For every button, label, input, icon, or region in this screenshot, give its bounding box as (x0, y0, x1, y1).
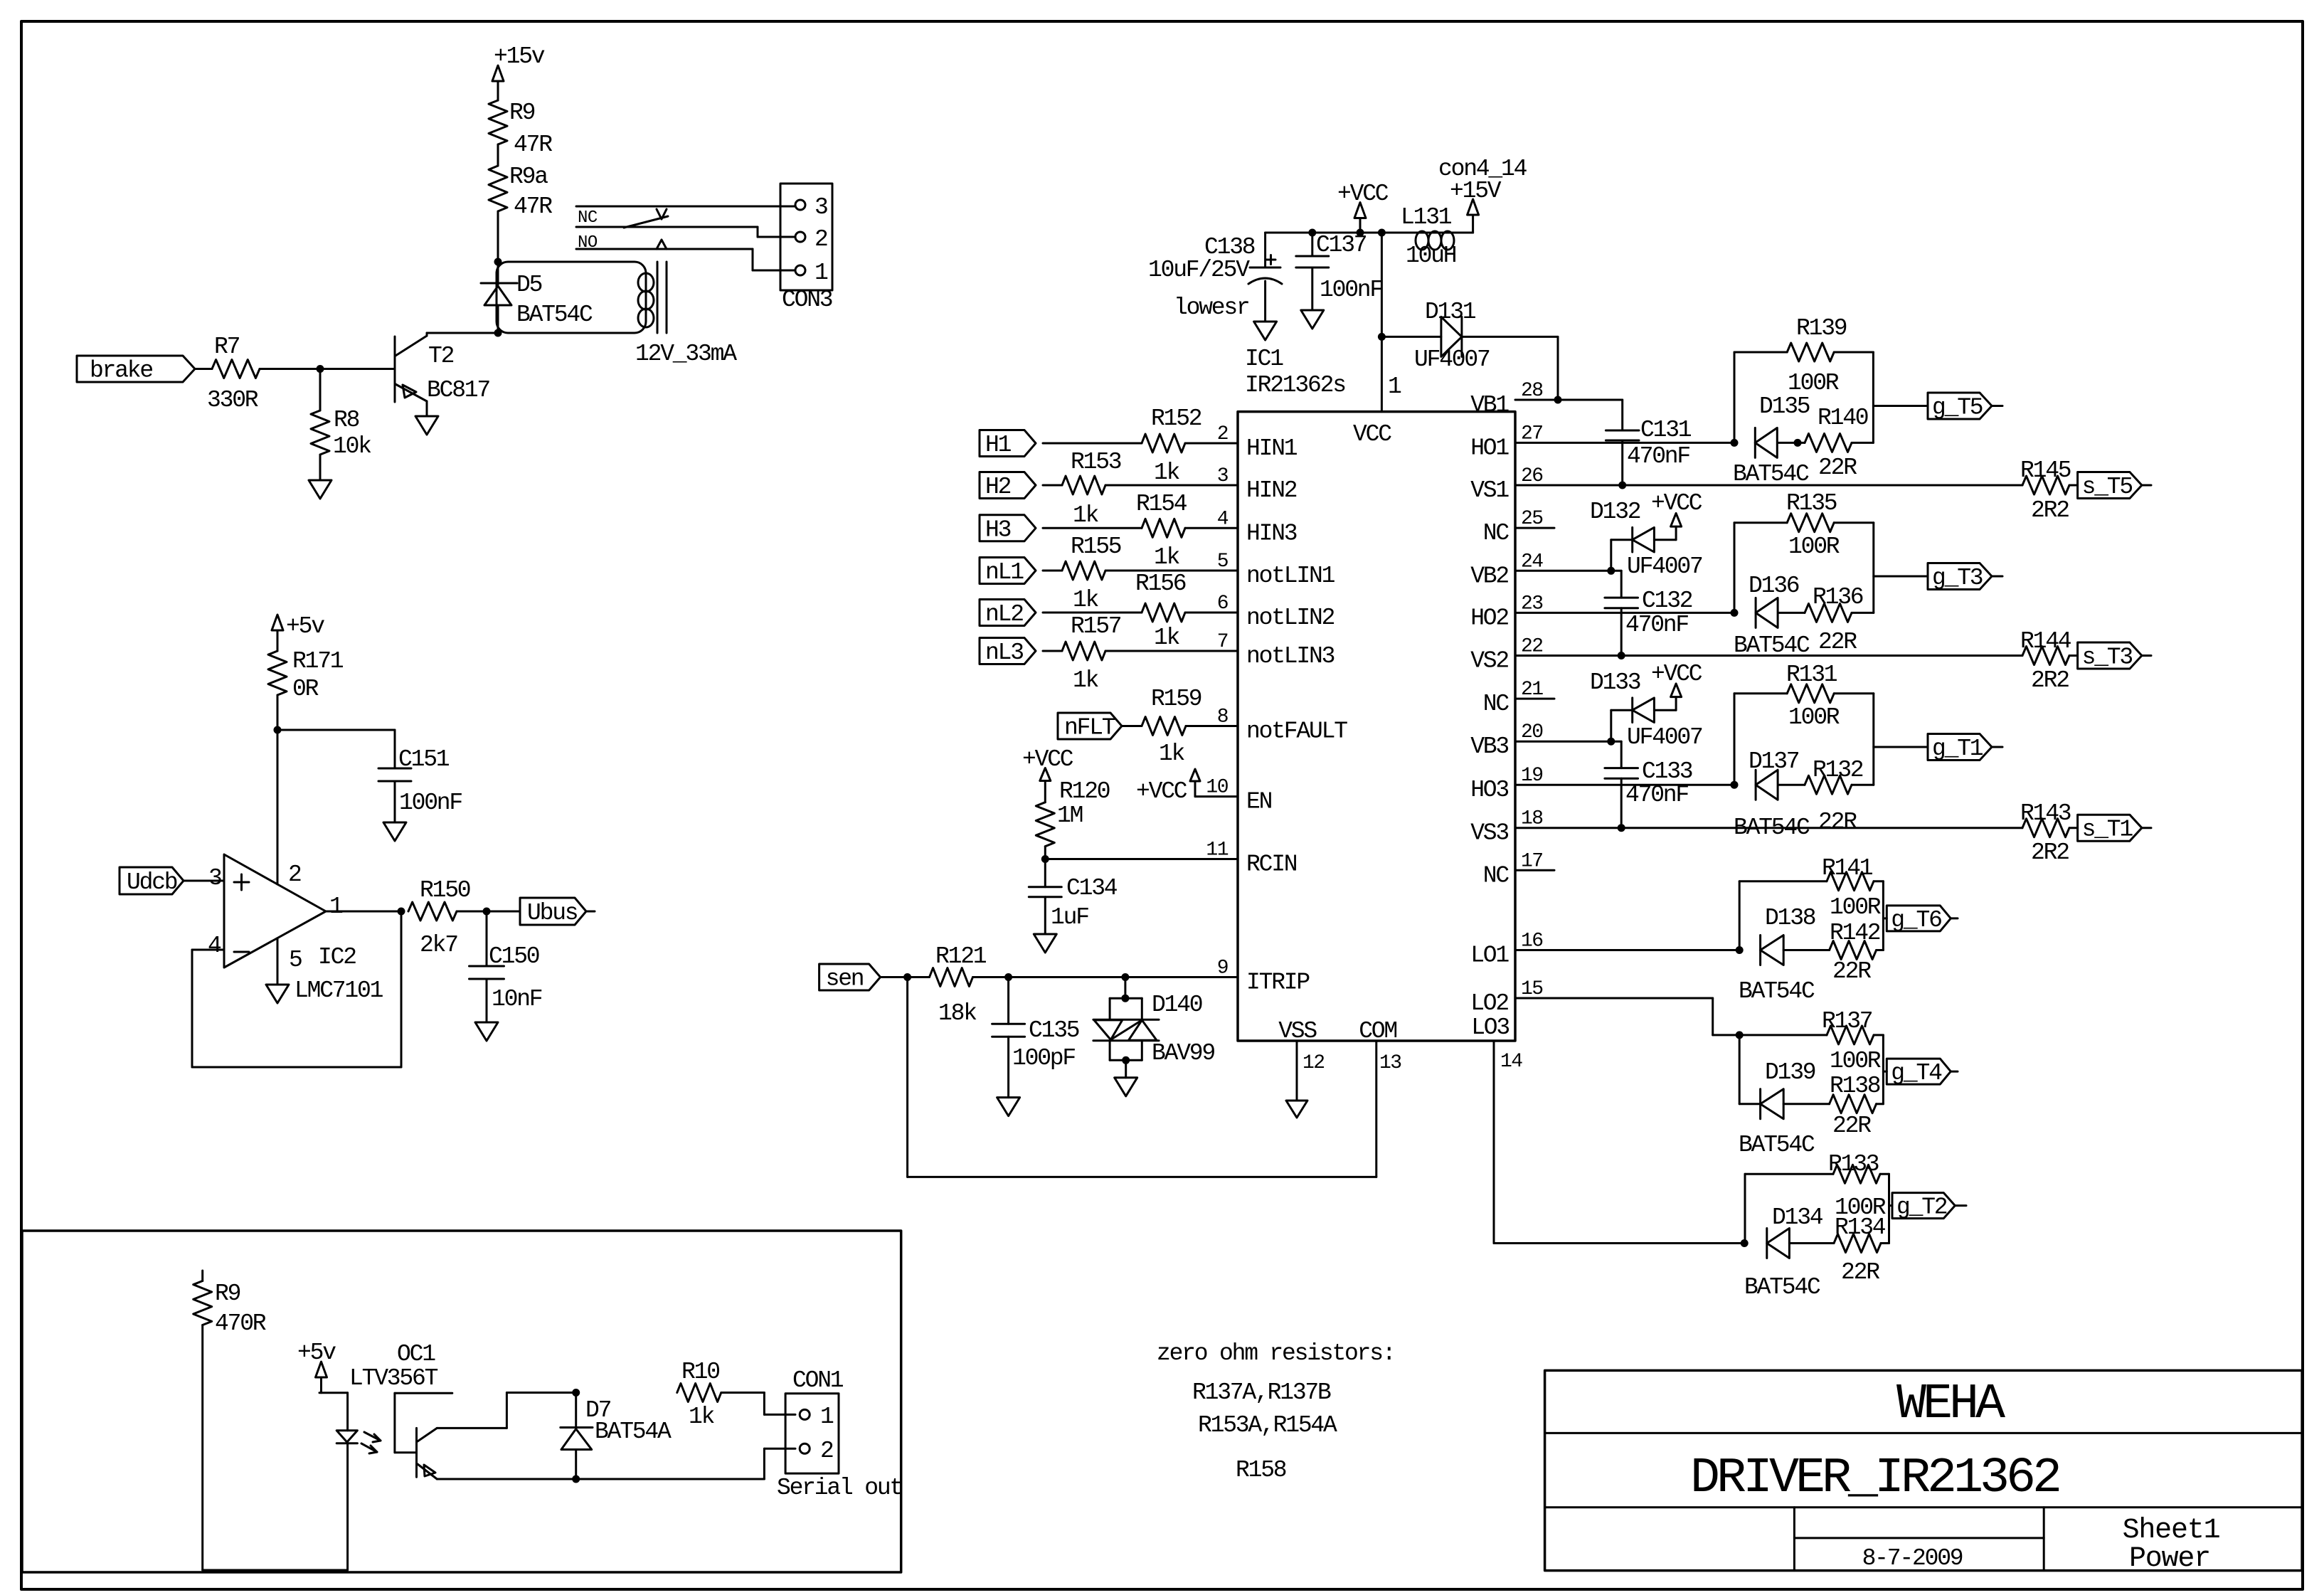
resistor R138 22R (1830, 1073, 1884, 1139)
opto LED (336, 1393, 357, 1570)
pin 15 LO2 (1470, 978, 1543, 1017)
connector CON1 (777, 1367, 902, 1501)
svg-text:R159: R159 (1151, 686, 1201, 712)
svg-text:R138: R138 (1830, 1073, 1880, 1099)
svg-text:LTV356T: LTV356T (349, 1365, 438, 1392)
inductor L131 10uH (1401, 204, 1473, 269)
svg-text:RCIN: RCIN (1246, 852, 1297, 878)
svg-text:T2: T2 (428, 343, 454, 369)
svg-text:NC: NC (1483, 691, 1509, 717)
net flag g_T5 (1873, 393, 2002, 421)
svg-text:g_T4: g_T4 (1891, 1060, 1942, 1086)
node (1308, 229, 1316, 237)
op-amp IC2 LMC7101 (224, 854, 383, 1004)
svg-text:22R: 22R (1818, 629, 1857, 655)
power +5v (serial) (297, 1340, 348, 1393)
svg-text:18k: 18k (938, 1000, 977, 1027)
svg-text:16: 16 (1521, 931, 1543, 953)
svg-text:100R: 100R (1830, 894, 1881, 921)
svg-text:8-7-2009: 8-7-2009 (1862, 1545, 1963, 1572)
svg-text:VS3: VS3 (1470, 820, 1508, 847)
svg-text:47R: 47R (514, 194, 552, 220)
pin 24 VB2 (1470, 551, 1543, 589)
svg-text:2R2: 2R2 (2031, 667, 2069, 694)
resistor R134 22R (1834, 1214, 1889, 1286)
svg-text:g_T2: g_T2 (1896, 1194, 1947, 1221)
svg-text:100R: 100R (1788, 704, 1840, 731)
svg-text:22R: 22R (1832, 958, 1871, 985)
svg-text:VB3: VB3 (1470, 733, 1508, 760)
svg-text:R134: R134 (1835, 1214, 1886, 1241)
power +VCC at R120 (1022, 746, 1073, 802)
capacitor C132 470nF (1605, 571, 1692, 655)
diode D135 BAT54C (1733, 393, 1810, 487)
wire LO2 (1515, 998, 1744, 1039)
ground (383, 822, 406, 841)
power con4_14 +15V (1438, 156, 1527, 233)
svg-text:VS1: VS1 (1470, 477, 1509, 504)
svg-text:g_T3: g_T3 (1932, 565, 1983, 591)
relay contact NO (576, 233, 753, 253)
svg-text:21: 21 (1521, 679, 1543, 701)
note zero ohm resistors (1157, 1340, 1394, 1367)
svg-text:IR21362s: IR21362s (1245, 372, 1345, 398)
resistor R9 470R (serial) (193, 1271, 266, 1570)
svg-text:470nF: 470nF (1625, 612, 1688, 638)
svg-text:zero ohm resistors:: zero ohm resistors: (1157, 1340, 1394, 1367)
svg-text:100nF: 100nF (399, 790, 462, 816)
svg-text:330R: 330R (207, 387, 258, 413)
capacitor C135 100pF (992, 977, 1079, 1098)
svg-text:22: 22 (1521, 636, 1543, 658)
svg-text:R139: R139 (1796, 315, 1847, 341)
ground (309, 480, 331, 499)
svg-text:27: 27 (1521, 423, 1543, 445)
svg-text:R9: R9 (215, 1281, 240, 1307)
svg-text:nL3: nL3 (985, 640, 1023, 666)
svg-text:1k: 1k (1073, 502, 1099, 529)
svg-text:100R: 100R (1788, 534, 1840, 560)
resistor R153 1k (1043, 449, 1238, 529)
svg-text:5: 5 (289, 947, 302, 973)
pin 13 COM (1359, 1018, 1401, 1074)
wire LED bottom (203, 1569, 348, 1572)
wire (497, 144, 499, 166)
resistor R9 (489, 100, 552, 158)
svg-text:C150: C150 (489, 943, 539, 970)
diode D137 BAT54C (1749, 748, 1863, 800)
svg-text:g_T1: g_T1 (1932, 736, 1983, 762)
svg-text:R171: R171 (292, 648, 344, 674)
capacitor C133 470nF (1605, 741, 1692, 828)
net flag H1 (980, 430, 1036, 459)
svg-text:nL1: nL1 (985, 559, 1024, 585)
svg-text:R158: R158 (1236, 1457, 1286, 1483)
resistor R155 1k (1043, 534, 1238, 613)
svg-text:R153: R153 (1071, 449, 1121, 475)
capacitor C131 470nF (1606, 400, 1691, 485)
relay common armature (576, 209, 758, 228)
transistor T2 BC817 (395, 333, 497, 416)
svg-text:notFAULT: notFAULT (1246, 719, 1347, 745)
svg-text:8: 8 (1217, 706, 1228, 728)
net flag nL2 (980, 600, 1036, 628)
pin 22 VS2 (1470, 636, 1542, 674)
svg-text:R9: R9 (509, 100, 535, 126)
svg-text:C134: C134 (1066, 875, 1118, 901)
svg-text:D131: D131 (1425, 299, 1476, 325)
svg-text:26: 26 (1521, 465, 1543, 487)
svg-text:10: 10 (1206, 777, 1228, 799)
svg-text:R9a: R9a (509, 164, 548, 190)
svg-text:lowesr: lowesr (1174, 295, 1249, 321)
svg-text:1k: 1k (1159, 741, 1185, 767)
wire pin4 feedback (192, 911, 401, 1067)
svg-text:R141: R141 (1822, 855, 1873, 881)
capacitor C151 100nF (277, 730, 462, 822)
svg-text:HO3: HO3 (1470, 777, 1508, 803)
svg-text:s_T5: s_T5 (2082, 474, 2133, 500)
svg-text:IC2: IC2 (318, 944, 356, 970)
svg-text:10k: 10k (333, 433, 371, 460)
net flag s_T3 (2078, 642, 2151, 671)
pin 8 notFAULT (1217, 706, 1348, 745)
pin5 ground (266, 938, 302, 1003)
svg-text:Power: Power (2129, 1543, 2210, 1575)
pin 9 ITRIP (1217, 958, 1310, 996)
resistor R120 1M (1036, 778, 1110, 859)
svg-text:7: 7 (1217, 631, 1228, 653)
svg-text:brake: brake (90, 358, 152, 384)
title company WEHA (1896, 1377, 2005, 1433)
resistor R152 1k (1043, 406, 1238, 486)
resistor R156 1k (1043, 571, 1238, 651)
svg-text:D137: D137 (1749, 748, 1799, 775)
svg-text:g_T5: g_T5 (1932, 395, 1983, 421)
svg-text:19: 19 (1521, 765, 1543, 787)
svg-text:R155: R155 (1071, 534, 1121, 560)
svg-text:D132: D132 (1590, 499, 1640, 525)
diode D131 UF4007 (1381, 299, 1558, 400)
wire HO3 (1515, 781, 1739, 789)
capacitor C150 10nF (469, 911, 542, 1022)
svg-text:11: 11 (1206, 839, 1228, 862)
resistor R132 22R (1734, 775, 1874, 841)
resistor R8 10k (311, 369, 371, 481)
resistor R7 330R (195, 334, 320, 413)
svg-text:g_T6: g_T6 (1891, 907, 1941, 933)
svg-text:6: 6 (1217, 593, 1228, 615)
resistor R131 100R loop T1 (1734, 662, 1874, 785)
wire CON3 pin1 (753, 249, 795, 270)
svg-text:17: 17 (1521, 850, 1543, 872)
pin 26 VS1 (1470, 465, 1542, 504)
svg-text:+VCC: +VCC (1022, 746, 1073, 773)
wire CON3 pin2 (758, 227, 795, 237)
svg-text:LO3: LO3 (1471, 1014, 1509, 1041)
node relay-top junction (494, 258, 502, 266)
svg-text:R150: R150 (420, 877, 470, 904)
svg-text:sen: sen (826, 966, 864, 992)
svg-text:HIN3: HIN3 (1246, 520, 1297, 546)
title Sheet1 (2123, 1515, 2220, 1547)
svg-text:C132: C132 (1642, 588, 1692, 614)
net flag g_T1 (1874, 734, 2002, 763)
svg-text:D138: D138 (1765, 905, 1815, 931)
svg-text:R137: R137 (1822, 1008, 1872, 1034)
pin 2 HIN1 (1217, 423, 1298, 462)
diode D140 BAV99 (1093, 977, 1215, 1078)
pin 7 notLIN3 (1217, 631, 1335, 669)
wire pin1 output (326, 894, 405, 920)
svg-text:DRIVER_IR21362: DRIVER_IR21362 (1690, 1451, 2059, 1507)
svg-text:OC1: OC1 (397, 1341, 435, 1367)
wire collector (437, 1393, 575, 1429)
svg-text:R157: R157 (1071, 613, 1121, 640)
svg-text:22R: 22R (1818, 455, 1857, 481)
box serial section (22, 1231, 901, 1572)
svg-text:BAV99: BAV99 (1152, 1040, 1214, 1066)
svg-text:2: 2 (1217, 423, 1228, 445)
svg-text:BC817: BC817 (427, 377, 489, 403)
net flag s_T5 (2078, 472, 2151, 501)
ground (1034, 934, 1056, 953)
svg-text:UF4007: UF4007 (1414, 346, 1490, 373)
resistor R171 0R (268, 648, 344, 730)
svg-text:EN: EN (1246, 789, 1272, 815)
title block frame (1545, 1370, 2303, 1570)
node (1004, 973, 1012, 981)
svg-text:3: 3 (208, 865, 221, 891)
diode D5 BAT54C (481, 262, 593, 333)
svg-text:1k: 1k (1154, 460, 1180, 486)
net flag g_T3 (1874, 563, 2002, 592)
svg-text:25: 25 (1521, 508, 1543, 530)
pin LO3 label (1471, 1014, 1522, 1073)
net flag nL1 (980, 558, 1036, 586)
net flag nL3 (980, 638, 1036, 667)
pin 21 NC (1483, 679, 1554, 717)
svg-text:UF4007: UF4007 (1627, 553, 1702, 580)
svg-text:BAT54A: BAT54A (595, 1419, 672, 1445)
resistor R157 1k (1043, 613, 1238, 694)
opto light arrows (361, 1432, 381, 1453)
node (274, 726, 282, 734)
svg-text:BAT54C: BAT54C (516, 302, 593, 328)
svg-text:D134: D134 (1772, 1204, 1823, 1231)
power +VCC arrow (1337, 181, 1389, 237)
net flag H2 (980, 472, 1036, 501)
resistor R150 2k7 (408, 877, 487, 958)
svg-text:C131: C131 (1640, 417, 1692, 443)
IC U1 IR21362 body (1238, 346, 1515, 1041)
svg-text:R153A,R154A: R153A,R154A (1198, 1412, 1337, 1438)
svg-text:22R: 22R (1818, 809, 1857, 835)
resistor R136 22R (1734, 603, 1874, 659)
resistor R159 1k (1122, 686, 1238, 767)
resistor R140 22R (1805, 405, 1873, 481)
capacitor C137 100nF (1296, 232, 1383, 310)
node RCIN junction (1041, 855, 1238, 863)
svg-text:1: 1 (820, 1404, 834, 1430)
svg-text:LO2: LO2 (1470, 990, 1508, 1017)
svg-text:2R2: 2R2 (2031, 497, 2069, 524)
svg-text:R137A,R137B: R137A,R137B (1192, 1379, 1331, 1406)
svg-text:VB2: VB2 (1470, 563, 1508, 589)
svg-text:28: 28 (1521, 380, 1543, 402)
svg-text:47R: 47R (514, 132, 552, 158)
optocoupler OC1 LTV356T (349, 1341, 452, 1479)
node LO3 junction (1741, 1239, 1749, 1247)
svg-text:BAT54C: BAT54C (1739, 978, 1815, 1005)
svg-text:D5: D5 (516, 272, 542, 298)
diode D136 BAT54C (1749, 573, 1863, 627)
svg-text:NC: NC (1483, 862, 1509, 889)
pin 3 HIN2 (1217, 465, 1297, 504)
svg-text:2: 2 (820, 1438, 833, 1464)
resistor R133 100R loop T2 (1745, 1151, 1889, 1244)
wire CON1 pin2 (764, 1448, 795, 1479)
power +5v (272, 613, 324, 651)
svg-text:NO: NO (578, 233, 598, 253)
net flag brake (77, 356, 195, 384)
svg-text:D135: D135 (1759, 393, 1810, 420)
svg-text:s_T3: s_T3 (2082, 645, 2133, 671)
pin 16 LO1 (1470, 931, 1542, 969)
svg-text:WEHA: WEHA (1896, 1377, 2005, 1433)
svg-text:3: 3 (1217, 465, 1229, 487)
resistor R121 18k (930, 943, 1238, 1027)
svg-text:R7: R7 (214, 334, 240, 360)
svg-text:R143: R143 (2020, 800, 2071, 827)
net flag g_T6 (1883, 906, 1958, 933)
svg-text:1k: 1k (1154, 544, 1180, 571)
pin 25 NC (1483, 508, 1554, 546)
svg-text:2R2: 2R2 (2031, 839, 2069, 866)
svg-text:D133: D133 (1590, 669, 1640, 696)
svg-text:D139: D139 (1765, 1059, 1815, 1086)
ground (1254, 322, 1277, 340)
svg-text:9: 9 (1217, 958, 1228, 980)
svg-text:1: 1 (815, 260, 828, 286)
note R137A R137B (1192, 1379, 1331, 1406)
resistor R144 2R2 (2020, 628, 2078, 694)
wire LO3 pin14 (1494, 1041, 1744, 1244)
svg-text:R131: R131 (1786, 662, 1837, 688)
svg-text:100R: 100R (1830, 1048, 1881, 1074)
net flag g_T2 (1889, 1193, 1967, 1221)
wire HO1 (1515, 439, 1739, 447)
wire VS3 (1515, 824, 2022, 832)
svg-text:C133: C133 (1642, 758, 1692, 785)
svg-text:HIN2: HIN2 (1246, 477, 1297, 504)
svg-text:470nF: 470nF (1627, 443, 1689, 470)
node (483, 908, 491, 916)
pin 12 VSS (1278, 1018, 1324, 1118)
svg-text:s_T1: s_T1 (2082, 817, 2133, 843)
svg-text:BAT54C: BAT54C (1733, 461, 1809, 487)
pin 6 notLIN2 (1217, 593, 1335, 631)
resistor R143 2R2 (2020, 800, 2078, 866)
wire (320, 368, 393, 370)
svg-text:NC: NC (1483, 520, 1509, 546)
svg-text:1M: 1M (1057, 802, 1083, 829)
svg-text:R156: R156 (1135, 571, 1186, 597)
svg-text:12V_33mA: 12V_33mA (635, 341, 737, 367)
svg-text:2: 2 (288, 862, 301, 888)
svg-text:+15v: +15v (494, 43, 545, 70)
svg-text:5: 5 (1217, 551, 1229, 573)
power rail +VCC top (1266, 232, 1473, 234)
relay contact NC (576, 206, 795, 228)
svg-text:COM: COM (1359, 1018, 1396, 1044)
net flag sen (819, 964, 881, 992)
svg-text:1k: 1k (689, 1404, 715, 1430)
svg-text:nFLT: nFLT (1064, 715, 1115, 741)
svg-text:C151: C151 (398, 746, 450, 773)
svg-text:D140: D140 (1152, 992, 1202, 1018)
svg-text:1: 1 (1388, 373, 1401, 400)
net flag nFLT (1058, 713, 1122, 741)
wire VB1 stub (1515, 396, 1623, 404)
svg-text:15: 15 (1521, 978, 1543, 1000)
svg-text:HIN1: HIN1 (1246, 435, 1298, 462)
diode D134 BAT54C (1744, 1204, 1834, 1300)
svg-text:BAT54C: BAT54C (1744, 1274, 1820, 1300)
svg-text:13: 13 (1379, 1052, 1401, 1074)
svg-text:R120: R120 (1059, 778, 1110, 805)
svg-text:10uF/25V: 10uF/25V (1148, 257, 1250, 283)
capacitor C134 1uF (1029, 859, 1118, 935)
svg-text:HO1: HO1 (1470, 435, 1509, 461)
net flag s_T1 (2078, 815, 2151, 843)
capacitor C138 10uF/25V lowesr (1148, 233, 1282, 322)
svg-text:Sheet1: Sheet1 (2123, 1515, 2220, 1547)
svg-text:22R: 22R (1832, 1113, 1871, 1139)
svg-text:2k7: 2k7 (420, 932, 457, 958)
svg-text:R154: R154 (1136, 491, 1187, 517)
node base junction (317, 365, 324, 373)
svg-text:R152: R152 (1151, 406, 1201, 432)
svg-text:LO1: LO1 (1470, 943, 1509, 969)
svg-text:24: 24 (1521, 551, 1543, 573)
svg-text:R8: R8 (334, 407, 359, 433)
svg-text:10nF: 10nF (492, 986, 542, 1012)
svg-text:1k: 1k (1073, 587, 1099, 613)
wire emitter rail (437, 1478, 764, 1480)
svg-text:UF4007: UF4007 (1627, 724, 1702, 751)
resistor R135 100R loop T3 (1734, 490, 1874, 613)
svg-text:VCC: VCC (1353, 421, 1391, 447)
svg-text:H1: H1 (985, 432, 1012, 458)
title date 8-7-2009 (1862, 1545, 1963, 1572)
power +VCC at D132 (1651, 490, 1702, 526)
svg-text:+5v: +5v (286, 613, 324, 640)
ground (415, 416, 438, 435)
svg-text:+5v: +5v (297, 1340, 336, 1366)
ground (997, 1098, 1020, 1116)
resistor R137 100R loop T4 (1739, 1008, 1883, 1104)
connector CON3 (780, 184, 832, 313)
svg-text:18: 18 (1521, 808, 1543, 830)
diode D139 BAT54C (1739, 1059, 1830, 1158)
wire VS2 (1515, 652, 2022, 659)
node pin1 drop (1378, 229, 1386, 237)
wire op-amp pin2 (277, 730, 301, 888)
pin 11 RCIN (1206, 839, 1296, 878)
svg-text:1uF: 1uF (1051, 904, 1088, 931)
svg-text:CON3: CON3 (782, 287, 832, 313)
